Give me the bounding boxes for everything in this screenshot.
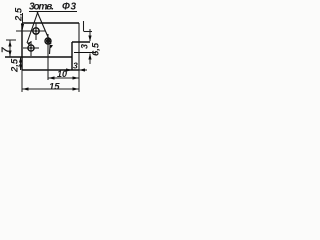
svg-text:3: 3 [73, 61, 78, 71]
svg-text:7: 7 [1, 47, 12, 53]
svg-text:10: 10 [57, 69, 67, 79]
svg-text:6,5: 6,5 [91, 42, 102, 56]
svg-text:3отв.: 3отв. [29, 2, 54, 13]
svg-text:3: 3 [80, 44, 90, 49]
svg-text:2,5: 2,5 [10, 58, 21, 73]
svg-text:Ф3: Ф3 [62, 2, 76, 13]
svg-text:2,5: 2,5 [14, 7, 25, 22]
svg-text:15: 15 [49, 82, 60, 93]
